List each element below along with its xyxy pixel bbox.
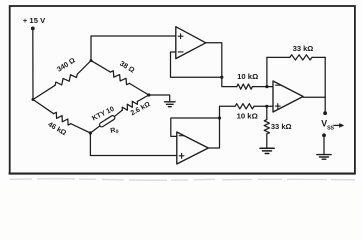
node A1 output junction: [220, 76, 223, 79]
wire non-inverting node to op-amp U3: [267, 105, 273, 107]
wire inverting node to op-amp U3: [267, 86, 273, 88]
node ground reference terminal: [322, 133, 326, 137]
wire A2 output up: [208, 106, 235, 148]
wire feedback node up: [266, 57, 268, 86]
resistor 340 Ohm: [33, 55, 91, 99]
resistor 10 kOhm (top): [237, 72, 267, 89]
svg-text:33 kΩ: 33 kΩ: [271, 122, 292, 131]
svg-text:10 kΩ: 10 kΩ: [237, 112, 258, 121]
resistor 33 kOhm (feedback): [267, 44, 325, 60]
ground at bridge right: [165, 102, 176, 107]
node U3 non-inverting input: [265, 105, 268, 108]
resistor 2.6 kOhm: [122, 95, 152, 117]
wire A2 feedback to inverting input: [171, 118, 220, 136]
wire +15V to bridge left node: [32, 28, 34, 99]
svg-text:10 kΩ: 10 kΩ: [237, 72, 258, 81]
label VSS with arrow: [321, 118, 344, 131]
node A2 feedback junction: [218, 116, 221, 119]
wire feedback down to output: [324, 57, 326, 97]
sensor KTY10 R_theta: [90, 106, 122, 137]
wire A1 junction down to 10k: [222, 77, 237, 86]
wire terminal to ground: [323, 135, 325, 154]
svg-text:33 kΩ: 33 kΩ: [293, 44, 314, 53]
node output terminal: [323, 111, 327, 115]
node bridge left: [32, 98, 35, 101]
resistor 46 kOhm: [33, 100, 90, 138]
wire bridge right to ground: [149, 95, 170, 101]
node bridge bottom: [89, 131, 92, 134]
op-amp U3: [273, 81, 303, 112]
node U3 inverting input: [265, 85, 268, 88]
wire A1 feedback to inverting input: [171, 52, 222, 77]
ground at output: [317, 155, 331, 160]
resistor 10 kOhm (bottom): [235, 104, 267, 121]
op-amp A2: [177, 132, 209, 164]
ground below 33 kOhm: [260, 148, 274, 153]
wire bridge bottom to op-amp A2 + input: [90, 133, 176, 156]
resistor 33 kOhm (to ground): [264, 106, 291, 147]
node bridge right: [147, 93, 150, 96]
op-amp A1: [176, 27, 206, 59]
supply +15 V: [23, 16, 46, 31]
resistor 38 Ohm: [91, 59, 149, 95]
wire U3 output: [303, 97, 325, 113]
node bridge top: [90, 59, 93, 62]
wire bridge top to op-amp A1 + input: [91, 36, 176, 61]
svg-text:+ 15 V: + 15 V: [23, 16, 46, 25]
wire A1 output: [206, 43, 222, 77]
